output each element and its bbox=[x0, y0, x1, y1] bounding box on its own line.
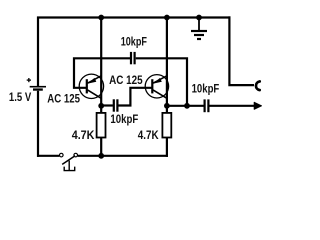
capacitor C2 bbox=[113, 99, 119, 111]
wire output line to C3 bbox=[167, 105, 204, 107]
svg-text:AC 125: AC 125 bbox=[109, 73, 143, 87]
capacitor C1 bbox=[130, 52, 136, 64]
node junction top rail right bbox=[164, 15, 170, 21]
resistor R1 4.7K bbox=[97, 106, 106, 156]
wire Q1 base to C1 left bbox=[74, 58, 130, 88]
svg-text:1.5 V: 1.5 V bbox=[9, 90, 31, 104]
wire bottom rail left segment bbox=[37, 155, 59, 157]
transistor Q1 AC125 bbox=[79, 74, 103, 98]
wire C2 right to Q2 base bbox=[118, 88, 152, 106]
svg-text:4.7K: 4.7K bbox=[138, 128, 159, 142]
node junction R1 bottom bbox=[98, 153, 104, 159]
node junction top rail left bbox=[98, 15, 104, 21]
svg-text:10kpF: 10kpF bbox=[192, 81, 220, 95]
svg-text:10kpF: 10kpF bbox=[121, 34, 147, 48]
ground bbox=[191, 15, 207, 39]
svg-text:AC 125: AC 125 bbox=[47, 91, 80, 105]
wire right vertical to jack bbox=[229, 16, 254, 85]
node junction Q2 collector bbox=[164, 103, 170, 109]
wire C2 left lead bbox=[101, 104, 113, 106]
wire C3 right to arrow bbox=[210, 105, 256, 107]
wire top rail bbox=[37, 16, 231, 18]
wire battery positive lead bbox=[37, 17, 39, 87]
wire Q1 supply vertical bbox=[100, 18, 102, 106]
output arrow terminal bbox=[254, 102, 261, 109]
node junction Q1 collector bbox=[98, 103, 104, 109]
wire bottom rail mid segment bbox=[78, 155, 168, 157]
svg-text:10kpF: 10kpF bbox=[110, 112, 138, 126]
switch S1 bbox=[60, 153, 78, 170]
capacitor C3 bbox=[204, 99, 210, 112]
node junction C1 output bbox=[184, 103, 190, 109]
battery B1 1.5V bbox=[27, 78, 46, 91]
terminal jack (open circle) bbox=[256, 81, 260, 90]
svg-text:4.7K: 4.7K bbox=[72, 128, 95, 142]
transistor Q2 AC125 bbox=[145, 75, 168, 99]
wire C1 right to output node bbox=[136, 58, 187, 106]
wire Q2 supply vertical bbox=[166, 18, 168, 106]
resistor R2 4.7K bbox=[162, 106, 171, 157]
wire battery negative lead bbox=[37, 91, 39, 157]
